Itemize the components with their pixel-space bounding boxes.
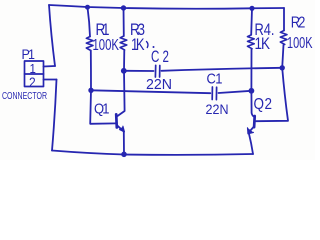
Q2 bar bbox=[253, 116, 256, 127]
resistor R2 100K bbox=[283, 8, 285, 31]
capacitor C1 plates bbox=[211, 87, 213, 100]
transistor Q2 bbox=[248, 116, 255, 154]
wire R2 node down to Q2 base corner bbox=[256, 68, 288, 121]
wire R3 node down to Q1 collector bbox=[118, 71, 125, 116]
resistor R3 1K bbox=[123, 8, 125, 36]
node top of R4 bbox=[249, 6, 254, 11]
svg-text:P1: P1 bbox=[22, 47, 36, 63]
wire R1 node down to Q1 base bbox=[90, 90, 115, 124]
resistor R4 1K bbox=[250, 8, 253, 35]
capacitor C1 wire right to Q2 collector node bbox=[219, 91, 252, 93]
capacitor C2 22N wire left bbox=[124, 70, 154, 72]
stray pen flick after 1K bbox=[147, 42, 148, 48]
wire pin 1 stub bbox=[44, 65, 56, 68]
capacitor C2 plates bbox=[154, 65, 156, 77]
svg-text:R2: R2 bbox=[291, 14, 306, 31]
capacitor C1 22N wire left bbox=[91, 90, 210, 93]
svg-text:Q1: Q1 bbox=[94, 101, 110, 117]
svg-text:100K: 100K bbox=[93, 37, 120, 54]
wire R4 node down to Q2 collector bbox=[251, 91, 254, 117]
svg-text:1K: 1K bbox=[255, 35, 271, 54]
node Q1 emitter on bottom rail bbox=[121, 152, 127, 158]
svg-text:CONNECTOR: CONNECTOR bbox=[2, 90, 47, 102]
connector P1 box bbox=[25, 61, 44, 87]
Q2 emitter drop bbox=[249, 133, 253, 154]
wire top rail V+ bbox=[49, 5, 284, 9]
svg-text:Q2: Q2 bbox=[254, 96, 273, 113]
wire pin 2 stub bbox=[44, 79, 57, 81]
node Q2 base / C2 tap bbox=[280, 65, 285, 70]
node Q1 collector / C2 tap bbox=[121, 68, 127, 74]
svg-text:100K: 100K bbox=[287, 35, 313, 52]
Q1 emitter diagonal bbox=[117, 126, 123, 132]
transistor Q1 bbox=[116, 114, 124, 154]
wire left drop from rail to connector pin 1 bbox=[49, 5, 55, 66]
node top of R3 bbox=[121, 5, 126, 10]
Q2 emitter diagonal bbox=[248, 127, 254, 133]
node top of R1 bbox=[85, 5, 90, 10]
Q2 emitter arrowhead bbox=[248, 128, 254, 134]
Q1 bar bbox=[115, 114, 118, 127]
svg-text:C 2: C 2 bbox=[151, 47, 169, 66]
node Q1 base / C1 tap bbox=[88, 88, 93, 93]
wire bottom rail (ground/return) bbox=[52, 151, 253, 155]
Q1 emitter arrowhead bbox=[120, 126, 125, 132]
Q1 emitter drop bbox=[123, 132, 125, 155]
svg-text:2: 2 bbox=[29, 74, 36, 90]
wire pin 2 drop to bottom rail bbox=[52, 80, 57, 151]
svg-text:22N: 22N bbox=[146, 75, 172, 92]
svg-text:22N: 22N bbox=[206, 101, 229, 117]
capacitor C2 wire right to Q2 base node bbox=[162, 68, 282, 71]
svg-text:1K: 1K bbox=[131, 37, 145, 55]
node Q2 collector / C1 tap bbox=[249, 88, 255, 94]
resistor R1 100K bbox=[88, 7, 91, 36]
svg-text:C1: C1 bbox=[207, 71, 223, 87]
